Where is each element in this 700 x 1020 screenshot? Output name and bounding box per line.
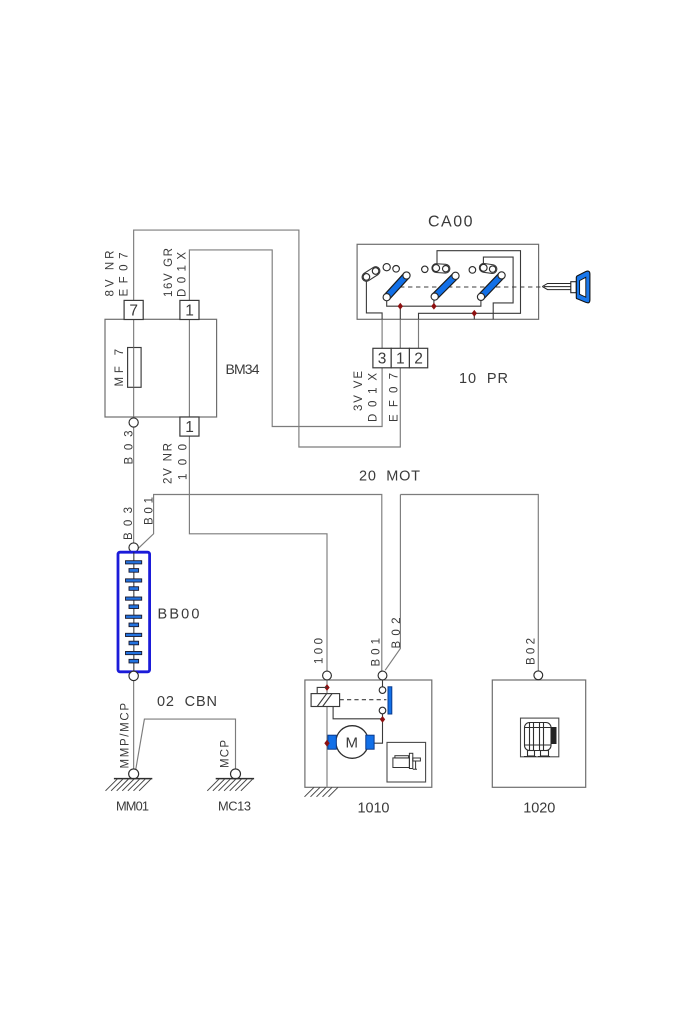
wire MCP ground MM01 to ground MC13	[136, 719, 236, 770]
svg-text:1010: 1010	[358, 801, 390, 817]
ground MM01	[106, 769, 153, 791]
pin 1 bottom of BM34	[180, 417, 199, 436]
fuse box BM34	[105, 319, 217, 417]
svg-text:B01: B01	[144, 497, 156, 525]
svg-text:B03: B03	[124, 431, 136, 465]
ignition key collar	[571, 282, 577, 293]
switch lever 3	[477, 272, 505, 301]
relay contact circles	[379, 687, 386, 694]
junction diamond motor to ground wire	[324, 740, 329, 747]
svg-text:20 MOT: 20 MOT	[359, 469, 420, 485]
switch group 3 contact circle	[469, 267, 476, 274]
svg-text:100: 100	[178, 444, 190, 480]
wire BM34 pin1 to CA00 pin3 (16V GR D01X)	[189, 250, 382, 427]
ground hatch at 1010	[305, 787, 339, 797]
starter motor unit 1010 box	[305, 680, 432, 787]
svg-text:7: 7	[129, 303, 138, 320]
svg-text:02 CBN: 02 CBN	[157, 694, 217, 710]
battery BB00	[118, 543, 150, 681]
wire MMP/MCP battery negative to ground MM01	[133, 681, 135, 769]
svg-text:MF 7: MF 7	[114, 349, 126, 387]
svg-text:1: 1	[185, 419, 194, 436]
switch group 1 contact circles	[383, 264, 390, 271]
svg-text:100: 100	[314, 638, 326, 664]
svg-text:B03: B03	[123, 507, 135, 540]
relay switch wire B01	[374, 680, 382, 743]
node circle 100 at 1010	[323, 671, 332, 680]
node circle B02 at 1020	[534, 671, 543, 680]
svg-text:MM01: MM01	[116, 799, 149, 814]
svg-text:B02: B02	[526, 638, 538, 665]
ignition key head	[576, 271, 590, 303]
starter motor M	[328, 726, 374, 759]
svg-text:1020: 1020	[523, 801, 555, 817]
junction diamond on 100 wire	[324, 684, 329, 691]
relay actuation dashed line	[340, 699, 387, 701]
svg-text:MCP: MCP	[219, 740, 231, 768]
ignition key shaft	[542, 284, 571, 290]
CA00 internal wire: switch 3 contact loop	[483, 257, 513, 319]
svg-text:B01: B01	[371, 638, 383, 667]
svg-text:1: 1	[396, 351, 405, 368]
svg-text:BB00: BB00	[158, 607, 200, 623]
svg-text:M: M	[346, 734, 359, 751]
wire CA00 pin stubs	[382, 319, 418, 348]
CA00 internal bus: levers to pin 1	[387, 300, 481, 319]
wire 100 from BM34 bottom pin1 to starter 1010	[189, 436, 327, 671]
switch lever 1	[383, 272, 410, 301]
ground MC13	[207, 769, 254, 791]
svg-text:2V NR: 2V NR	[163, 443, 175, 484]
dashed key axis line	[392, 286, 542, 288]
alternator unit 1020 box	[492, 680, 585, 787]
svg-text:B02: B02	[391, 618, 403, 649]
ignition key head hole	[580, 277, 586, 297]
svg-text:CA00: CA00	[428, 214, 473, 231]
relay coil 1010	[311, 694, 340, 707]
wire B03 from BM34 to battery BB00	[133, 427, 135, 543]
wire BM34 pin7 to CA00 pin1 (8V NR EF07)	[134, 230, 401, 447]
svg-text:16V GR: 16V GR	[163, 248, 175, 297]
relay contact blue bar	[388, 687, 392, 714]
switch group 1 released-contact capsule	[360, 265, 381, 283]
switch lever 2	[431, 272, 459, 300]
connector pins 3 1 2 of CA00	[373, 348, 428, 368]
switch group 2 released-contact capsule	[432, 263, 451, 273]
relay coil feed wire	[317, 687, 327, 693]
wire B02 to alternator 1020	[400, 495, 538, 671]
junction diamond below relay contact	[380, 716, 385, 723]
svg-text:BM34: BM34	[226, 361, 260, 377]
CA00 internal wire: pin 2 to switch 2 contact	[419, 251, 521, 320]
svg-text:MC13: MC13	[218, 799, 251, 814]
wire B01 battery BB00 to starter 1010	[137, 495, 382, 672]
fuse MF7	[128, 348, 142, 388]
relay coil to contact wire	[333, 707, 382, 719]
svg-text:2: 2	[414, 351, 423, 368]
pin 1 top of BM34	[180, 300, 199, 319]
alternator icon box	[521, 718, 559, 757]
ignition switch CA00 box	[357, 244, 538, 319]
node circle below BM34	[129, 418, 138, 427]
svg-text:10 PR: 10 PR	[459, 371, 508, 387]
wire B02 branch to starter 1010	[385, 495, 400, 671]
starter icon box inside 1010	[387, 742, 426, 782]
switch group 2 contact circle	[422, 266, 428, 272]
wire B03 through fuse inside BM34	[133, 320, 135, 418]
junction diamonds CA00	[398, 303, 403, 310]
CA00 internal stub at junction	[473, 313, 475, 319]
svg-text:3V VE: 3V VE	[353, 371, 365, 411]
CA00 internal wire: start contact to pin 3	[366, 280, 382, 319]
svg-text:1: 1	[185, 303, 194, 320]
wire inside BM34 pin1 to pin1	[188, 320, 190, 418]
switch group 3 released-contact capsule	[479, 263, 498, 274]
svg-text:3: 3	[378, 351, 387, 368]
wire 100 inside 1010 to ground	[326, 680, 328, 788]
pin 7 of BM34	[124, 300, 143, 319]
node circle B01 at 1010	[378, 671, 387, 680]
